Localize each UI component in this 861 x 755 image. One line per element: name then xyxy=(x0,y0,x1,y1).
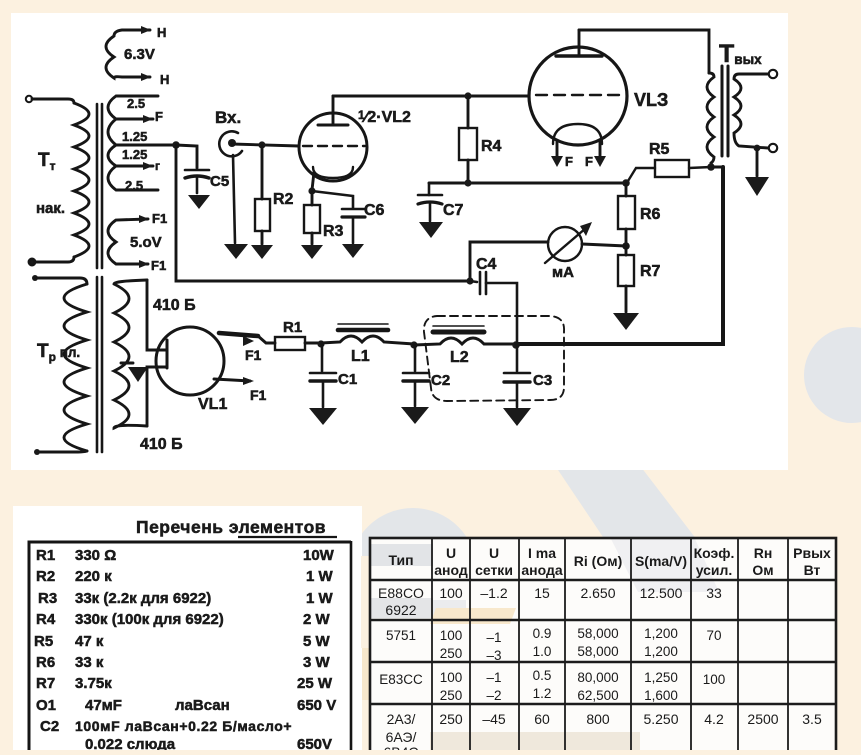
label F1 lower xyxy=(151,258,166,273)
DATATABLE xyxy=(370,538,836,755)
label R6 xyxy=(640,206,661,223)
tube VL2 cathode xyxy=(313,167,353,178)
svg-text:Перечень элементов: Перечень элементов xyxy=(136,517,326,537)
terminal bottom-left of Tr pl xyxy=(34,449,40,455)
ground arrow at secondary CT xyxy=(121,363,148,382)
parts row R1 xyxy=(36,547,335,564)
terminal top-left of Tt nak xyxy=(26,96,32,102)
svg-text:F: F xyxy=(155,109,163,124)
node A xyxy=(317,340,324,347)
svg-text:2 W: 2 W xyxy=(303,611,331,628)
svg-text:410 Б: 410 Б xyxy=(140,436,183,453)
svg-text:1 W: 1 W xyxy=(306,568,334,585)
svg-text:80,000: 80,000 xyxy=(577,670,618,685)
svg-text:S(ma/V): S(ma/V) xyxy=(635,553,687,569)
svg-text:F1: F1 xyxy=(250,387,267,403)
ground under C1 xyxy=(309,408,337,425)
parts row R6 xyxy=(36,654,331,671)
transformer Tvyh secondary winding xyxy=(734,74,768,148)
svg-text:47мF: 47мF xyxy=(85,697,122,714)
parts row C2 line2 xyxy=(85,736,332,753)
label C1 xyxy=(338,371,357,388)
ground under R3 xyxy=(301,245,323,259)
wire meter right xyxy=(582,244,626,246)
meter mA xyxy=(545,222,592,263)
parts row R3 xyxy=(38,590,334,607)
resistor R3 xyxy=(304,191,320,244)
capacitor C3 xyxy=(504,345,530,407)
PARTSLIST xyxy=(29,517,351,753)
WATERMARK_SHAPES xyxy=(349,327,861,636)
svg-text:E88CO: E88CO xyxy=(378,585,424,601)
transformer Tvyh primary winding xyxy=(707,73,714,167)
svg-text:F: F xyxy=(585,154,593,169)
svg-text:3 W: 3 W xyxy=(303,654,331,671)
node transformer bottom xyxy=(707,163,715,171)
ground under C6 xyxy=(342,244,364,258)
svg-text:58,000: 58,000 xyxy=(577,626,618,641)
svg-text:Вх.: Вх. xyxy=(215,108,241,127)
node R4 top xyxy=(464,92,471,99)
ground under R2 xyxy=(251,245,273,259)
svg-text:250: 250 xyxy=(440,688,463,703)
resistor R1 xyxy=(275,337,305,350)
svg-text:L1: L1 xyxy=(351,348,370,365)
svg-text:U: U xyxy=(446,545,456,561)
wire tap to C5 xyxy=(176,145,197,168)
label F1 at VL1 xyxy=(245,347,262,363)
terminal top-left of Tr pl xyxy=(32,275,38,281)
terminal ring secondary top xyxy=(769,70,777,78)
svg-text:220 к: 220 к xyxy=(75,568,112,585)
filament winding 2.5 / 1.25 taps xyxy=(108,96,176,190)
svg-text:330 Ω: 330 Ω xyxy=(75,547,116,564)
svg-text:330к (100к для 6922): 330к (100к для 6922) xyxy=(75,611,224,628)
svg-text:C4: C4 xyxy=(476,256,497,273)
svg-text:Ом: Ом xyxy=(752,562,773,578)
ground under C2 xyxy=(401,407,429,424)
label F1 upper xyxy=(152,211,167,226)
svg-text:5.oV: 5.oV xyxy=(130,234,162,251)
svg-text:U: U xyxy=(489,545,499,561)
svg-text:R7: R7 xyxy=(640,263,661,280)
transformer Tr pl primary winding xyxy=(64,284,87,451)
svg-text:1.2: 1.2 xyxy=(533,686,552,701)
svg-text:5.250: 5.250 xyxy=(643,711,678,727)
node R4 bottom xyxy=(464,179,471,186)
svg-text:–45: –45 xyxy=(482,711,506,727)
svg-text:3.5: 3.5 xyxy=(802,711,822,727)
svg-text:5751: 5751 xyxy=(386,628,416,643)
svg-text:R4: R4 xyxy=(36,611,56,628)
wire bottom primary Tr pl xyxy=(40,451,87,452)
svg-text:Вт: Вт xyxy=(804,562,821,578)
svg-text:12.500: 12.500 xyxy=(640,585,683,601)
label VL1 xyxy=(198,396,227,413)
label L2 xyxy=(450,349,469,366)
svg-text:0.022 слюда: 0.022 слюда xyxy=(85,736,176,750)
svg-text:10W: 10W xyxy=(303,547,335,564)
wire R1 to node A xyxy=(305,342,321,345)
svg-text:2.5: 2.5 xyxy=(127,96,145,111)
arrow on F1 lead xyxy=(243,336,254,346)
svg-text:6АЭ/: 6АЭ/ xyxy=(386,729,417,745)
svg-text:R2: R2 xyxy=(273,191,294,208)
svg-text:L2: L2 xyxy=(450,349,469,366)
parts list title xyxy=(136,517,337,537)
label R5 xyxy=(649,141,670,158)
capacitor C4 xyxy=(470,272,517,344)
ground under R7 xyxy=(613,313,639,330)
label 5.0V xyxy=(130,234,162,251)
label R7 xyxy=(640,263,661,280)
svg-text:C5: C5 xyxy=(210,173,229,190)
svg-text:Тип: Тип xyxy=(388,552,413,568)
capacitor C7 xyxy=(418,183,442,221)
svg-text:650 V: 650 V xyxy=(297,697,336,714)
ground on secondary xyxy=(745,148,769,196)
node meter junction xyxy=(622,242,630,250)
svg-text:62,500: 62,500 xyxy=(577,688,618,703)
svg-text:I ma: I ma xyxy=(528,545,556,561)
core of Tr pl xyxy=(97,277,102,452)
svg-text:г: г xyxy=(155,159,160,173)
svg-text:33: 33 xyxy=(706,585,722,601)
inductor L1 core bar xyxy=(338,324,388,330)
svg-text:Коэф.: Коэф. xyxy=(694,545,735,561)
svg-text:–1.2: –1.2 xyxy=(480,585,507,601)
label F xyxy=(155,109,163,124)
svg-text:F1: F1 xyxy=(245,347,262,363)
svg-text:650V: 650V xyxy=(297,736,332,750)
wire VL3 anode to transformer xyxy=(579,30,709,73)
tube VL2 envelope xyxy=(299,113,367,181)
svg-text:1⁄2·VL2: 1⁄2·VL2 xyxy=(358,108,411,126)
table row E83CC xyxy=(379,668,725,703)
svg-text:0.9: 0.9 xyxy=(533,626,552,641)
svg-text:C1: C1 xyxy=(338,371,357,388)
label C2 xyxy=(431,372,450,389)
svg-text:100: 100 xyxy=(439,585,463,601)
ground under C5 xyxy=(188,195,210,209)
wire jack to VL2 grid xyxy=(232,144,299,146)
tube VL3 envelope xyxy=(529,47,627,145)
tube VL3 plate xyxy=(556,54,602,57)
svg-text:1,250: 1,250 xyxy=(644,670,678,685)
capacitor C2 xyxy=(403,345,429,406)
terminal ring secondary bottom xyxy=(769,144,777,152)
resistor R2 xyxy=(255,145,270,244)
svg-text:E83CC: E83CC xyxy=(379,672,423,687)
label Tr pl xyxy=(37,341,80,364)
svg-text:100: 100 xyxy=(440,628,463,643)
tube VL3 grid dashes xyxy=(536,94,622,96)
label Fl at VL1 xyxy=(250,387,267,403)
svg-text:R1: R1 xyxy=(36,547,55,564)
wire VL2 anode up xyxy=(332,96,335,125)
svg-text:R4: R4 xyxy=(481,138,502,155)
resistor R7 xyxy=(618,246,634,312)
svg-text:анода: анода xyxy=(521,562,562,578)
ground under C3 xyxy=(503,408,531,426)
svg-text:100мF лаВсан+0.22 Б/масло+: 100мF лаВсан+0.22 Б/масло+ xyxy=(75,718,292,734)
svg-text:C3: C3 xyxy=(533,372,552,389)
svg-text:5 W: 5 W xyxy=(303,633,331,650)
ground under jack xyxy=(224,244,248,259)
parts row R7 xyxy=(36,675,333,692)
node cathode VL2 xyxy=(308,187,315,194)
tube VL2 plate xyxy=(318,124,348,127)
tube VL1 lower lead Fl xyxy=(214,377,254,385)
svg-text:–1: –1 xyxy=(486,630,501,645)
svg-text:33к (2.2к для 6922): 33к (2.2к для 6922) xyxy=(75,590,211,607)
svg-text:60: 60 xyxy=(534,711,550,727)
label C7 xyxy=(443,202,464,219)
resistor R5 xyxy=(628,160,711,181)
wire VL3 anode up xyxy=(578,30,581,56)
winding 6.3V with H leads xyxy=(106,26,151,81)
inductor L2 coil xyxy=(414,338,516,345)
ground under C7 xyxy=(419,222,443,238)
filament leads F F of VL3 xyxy=(551,142,606,167)
label C5 xyxy=(210,173,229,190)
wire screen rail xyxy=(429,182,626,185)
label 2.5 top xyxy=(127,96,145,111)
label R2 xyxy=(273,191,294,208)
wire meter left to C4 xyxy=(470,242,548,281)
node tap junction xyxy=(172,141,180,149)
core of Tvyh xyxy=(722,66,728,156)
svg-text:250: 250 xyxy=(439,711,463,727)
svg-text:100: 100 xyxy=(440,670,463,685)
parts row C2 xyxy=(40,718,292,735)
tube VL2 grid dashes xyxy=(303,145,365,147)
svg-text:усил.: усил. xyxy=(696,562,733,578)
parts list box border xyxy=(29,541,351,750)
node screen rail right xyxy=(622,179,630,187)
svg-text:410 Б: 410 Б xyxy=(153,297,196,314)
label F right xyxy=(585,154,593,169)
svg-text:–1: –1 xyxy=(486,670,501,685)
label 1.25 xyxy=(122,129,147,144)
label 2.5 bottom xyxy=(125,178,143,193)
terminal bottom-left of Tt nak xyxy=(29,259,35,265)
wire transformer bottom to rail xyxy=(711,166,723,169)
svg-text:C7: C7 xyxy=(443,202,464,219)
wire top primary Tt nak xyxy=(32,99,74,103)
svg-text:1.0: 1.0 xyxy=(533,644,552,659)
capacitor C5 xyxy=(185,170,209,193)
svg-text:6В4С: 6В4С xyxy=(383,744,418,750)
svg-text:VLЗ: VLЗ xyxy=(634,90,668,110)
svg-text:2.650: 2.650 xyxy=(580,585,615,601)
svg-text:R1: R1 xyxy=(283,319,302,336)
svg-text:1.25: 1.25 xyxy=(122,129,147,144)
wire 410V top to VL1 xyxy=(147,280,166,350)
wire bottom rail xyxy=(516,167,723,344)
node B xyxy=(410,341,417,348)
label VL3 xyxy=(634,90,668,110)
svg-text:O1: O1 xyxy=(36,697,56,714)
wire top primary Tr pl xyxy=(35,278,87,284)
svg-text:33 к: 33 к xyxy=(75,654,104,671)
label 1/2 VL2 xyxy=(358,108,411,126)
svg-text:–3: –3 xyxy=(486,648,501,663)
svg-text:C2: C2 xyxy=(40,718,59,735)
input jack pin xyxy=(228,139,236,147)
node C xyxy=(512,341,520,349)
svg-text:R6: R6 xyxy=(640,206,661,223)
wire 410V bottom to VL1 xyxy=(147,367,166,426)
svg-text:анод: анод xyxy=(434,562,468,578)
svg-text:6922: 6922 xyxy=(385,602,416,618)
svg-text:C6: C6 xyxy=(364,202,385,219)
svg-text:58,000: 58,000 xyxy=(577,644,618,659)
svg-text:H: H xyxy=(160,72,169,87)
svg-text:R7: R7 xyxy=(36,675,55,692)
label 410 B top xyxy=(153,297,196,314)
tube VL1 thick output lead F1 xyxy=(219,333,258,336)
svg-text:250: 250 xyxy=(440,646,463,661)
dashed enclosure box xyxy=(424,316,564,401)
tube VL3 cathode xyxy=(553,124,602,144)
svg-text:F1: F1 xyxy=(151,258,166,273)
svg-text:R6: R6 xyxy=(36,654,55,671)
svg-text:4.2: 4.2 xyxy=(704,711,724,727)
label R1 xyxy=(283,319,302,336)
label mA xyxy=(552,264,574,281)
svg-text:H: H xyxy=(157,25,166,40)
table header row xyxy=(388,545,831,578)
svg-text:–2: –2 xyxy=(486,688,501,703)
label R3 xyxy=(323,223,344,240)
svg-text:мА: мА xyxy=(552,264,574,281)
label F left xyxy=(565,154,573,169)
label C3 xyxy=(533,372,552,389)
tube VL1 envelope xyxy=(156,327,224,395)
core of Tt nak xyxy=(97,104,102,268)
svg-text:Рвых: Рвых xyxy=(793,545,831,561)
inductor L1 coil xyxy=(321,336,414,344)
label 6.3V xyxy=(124,46,155,63)
svg-text:25 W: 25 W xyxy=(297,675,333,692)
label T vyh xyxy=(719,40,762,68)
svg-text:800: 800 xyxy=(586,711,610,727)
resistor R6 xyxy=(618,183,635,245)
svg-text:6.3V: 6.3V xyxy=(124,46,155,63)
label H top xyxy=(157,25,166,40)
svg-text:Rн: Rн xyxy=(754,545,773,561)
label g tap xyxy=(155,159,160,173)
svg-text:нак.: нак. xyxy=(36,200,65,217)
svg-text:C2: C2 xyxy=(431,372,450,389)
svg-text:2A3/: 2A3/ xyxy=(387,711,416,727)
table row 2A3 xyxy=(383,711,821,755)
node secondary ground tap xyxy=(754,145,761,152)
table row E88CO 6922 xyxy=(378,585,722,618)
svg-text:1,200: 1,200 xyxy=(644,626,678,641)
label R4 xyxy=(481,138,502,155)
transformer Tt nak primary winding xyxy=(74,103,89,257)
capacitor C1 xyxy=(310,344,336,407)
capacitor C6 xyxy=(312,191,365,243)
resistor R4 xyxy=(459,96,477,183)
table grid xyxy=(370,538,836,752)
label H bottom xyxy=(160,72,169,87)
svg-text:1,200: 1,200 xyxy=(644,644,678,659)
label Tt xyxy=(38,150,56,173)
node grid VL2 xyxy=(258,141,265,148)
wire bottom primary Tt nak xyxy=(36,257,74,262)
svg-text:Ri (Ом): Ri (Ом) xyxy=(574,553,622,569)
label Bx input xyxy=(215,108,241,127)
svg-text:R3: R3 xyxy=(38,590,57,607)
inductor L2 core bar xyxy=(433,326,484,332)
svg-text:100: 100 xyxy=(703,672,726,687)
svg-text:F1: F1 xyxy=(152,211,167,226)
svg-text:F: F xyxy=(565,154,573,169)
svg-text:сетки: сетки xyxy=(475,562,513,578)
svg-text:0.5: 0.5 xyxy=(533,668,552,683)
svg-text:2.5: 2.5 xyxy=(125,178,143,193)
transformer Tr pl secondary winding xyxy=(114,280,147,428)
parts row R4 xyxy=(36,611,331,628)
label C4 xyxy=(476,256,497,273)
node C4 junction xyxy=(466,277,473,284)
input jack shell xyxy=(219,131,242,243)
label L1 xyxy=(351,348,370,365)
label 410 B bottom xyxy=(140,436,183,453)
wire B+ rail from tap xyxy=(176,145,467,281)
svg-text:R5: R5 xyxy=(649,141,670,158)
svg-text:VL1: VL1 xyxy=(198,396,227,413)
wire VL1 to R1 xyxy=(258,336,275,343)
parts row C1 xyxy=(36,697,336,714)
winding 5.0V with F1 leads xyxy=(108,215,149,268)
svg-text:3.75к: 3.75к xyxy=(75,675,112,692)
svg-text:лаВсан: лаВсан xyxy=(175,697,230,714)
svg-text:15: 15 xyxy=(534,585,550,601)
wire VL2 cathode down xyxy=(312,172,314,190)
svg-text:47 к: 47 к xyxy=(75,633,104,650)
label nak xyxy=(36,200,65,217)
label 1.25 lower xyxy=(122,147,147,162)
label C6 xyxy=(364,202,385,219)
svg-text:2500: 2500 xyxy=(747,711,778,727)
parts row R5 xyxy=(34,633,331,650)
svg-text:R2: R2 xyxy=(36,568,55,585)
tube VL1 plate bar xyxy=(166,340,169,368)
parts row R2 xyxy=(36,568,334,585)
svg-text:1 W: 1 W xyxy=(306,590,334,607)
wire VL2 anode to VL3 grid xyxy=(333,95,529,98)
svg-text:1.25: 1.25 xyxy=(122,147,147,162)
svg-text:R5: R5 xyxy=(34,633,53,650)
table row 5751 xyxy=(386,626,722,663)
svg-text:70: 70 xyxy=(706,628,721,643)
svg-text:R3: R3 xyxy=(323,223,344,240)
svg-text:1,600: 1,600 xyxy=(644,688,678,703)
